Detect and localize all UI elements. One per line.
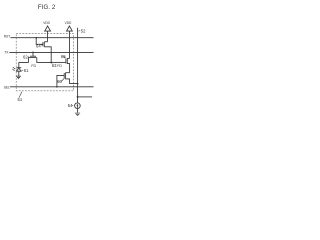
svg-text:FIG. 2: FIG. 2 [38,4,56,11]
node dot select to column [77,83,79,85]
label 61 [22,69,24,71]
ground photodiode [16,75,21,77]
svg-text:TX: TX [4,51,9,55]
TX row line [9,51,93,53]
wire TX gate [32,52,34,56]
SEL row line [10,86,94,88]
svg-text:VDD: VDD [65,21,72,25]
svg-text:66: 66 [57,79,62,84]
svg-text:64: 64 [36,43,41,48]
svg-text:62: 62 [23,55,28,60]
light arrows [13,67,15,69]
label 52 [78,30,80,32]
node dot on TX line [32,52,34,54]
wire current source to ground [76,109,78,113]
wire FD to amp gate [51,61,66,63]
svg-text:61: 61 [24,68,29,73]
svg-text:SEL: SEL [4,86,10,90]
svg-text:RST: RST [4,35,11,39]
node FD dot [50,62,52,64]
wire VDD1 to reset transistor [47,31,49,42]
vertical signal line 52 [77,28,79,103]
wire VDD2 to amp transistor [69,31,71,58]
node dot on SEL line [56,86,58,88]
svg-text:FD: FD [31,64,36,68]
transfer transistor 62 [30,55,36,57]
current source 54 [75,103,81,109]
svg-text:FD: FD [57,64,62,68]
ground current source [75,112,80,114]
photodiode 61 [18,62,20,67]
wire SEL gate [57,75,64,86]
wire RST gate [36,38,43,45]
svg-text:52: 52 [81,29,86,34]
amp transistor 65 [65,59,67,64]
reset transistor 64 [42,42,44,46]
dashed box pixel 51 [16,34,73,91]
RST row line [10,37,93,39]
select transistor 66 [63,73,65,79]
output wire [78,96,93,98]
node dot on RST line [35,37,37,39]
svg-text:51: 51 [18,97,23,102]
svg-text:VDD: VDD [43,21,50,25]
node dot output [77,96,79,98]
